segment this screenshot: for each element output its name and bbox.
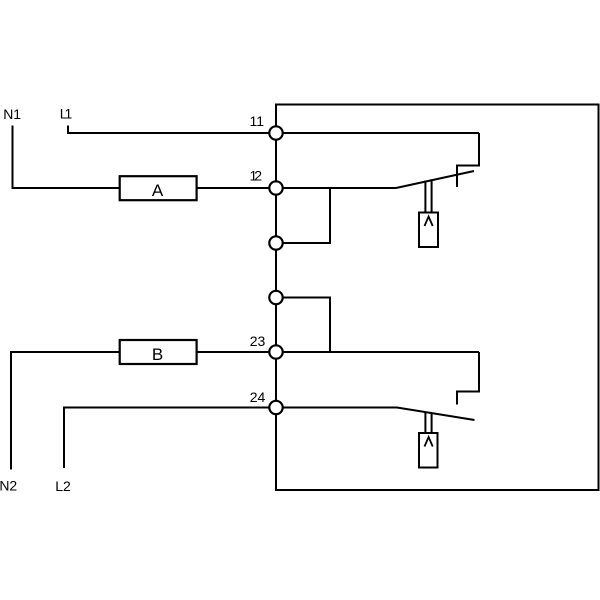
- actuator link of switch 23-24: [425, 412, 431, 433]
- actuator box of switch 11-12: [419, 213, 438, 248]
- wire L1 to terminal 11: [68, 126, 276, 134]
- terminal 23: [269, 345, 282, 358]
- wire terminal 11 to fixed contact: [276, 132, 479, 134]
- svg-text:L2: L2: [55, 478, 71, 494]
- svg-text:B: B: [152, 345, 163, 364]
- actuator box of switch 23-24: [419, 433, 438, 468]
- spare terminal lower: [269, 291, 282, 304]
- svg-text:24: 24: [250, 389, 266, 405]
- wire coil A to terminal 12: [198, 187, 277, 189]
- svg-text:A: A: [152, 181, 164, 200]
- svg-text:N1: N1: [3, 106, 21, 122]
- wire L2 to terminal 24: [64, 408, 276, 469]
- coil B box: [120, 340, 197, 364]
- coil A box: [120, 176, 197, 200]
- fixed contact of switch 11-12: [457, 133, 479, 187]
- fixed contact of switch 23-24: [457, 352, 479, 405]
- svg-text:11: 11: [250, 113, 265, 129]
- svg-text:N2: N2: [0, 478, 17, 494]
- jumper terminal 12 to spare terminal: [276, 188, 330, 243]
- spare terminal upper: [269, 236, 282, 249]
- terminal 24: [269, 401, 282, 414]
- wire coil B to terminal 23: [198, 351, 277, 353]
- terminal 11: [269, 126, 282, 139]
- wire terminal 12 to blade: [276, 187, 396, 189]
- wire N1 to coil A: [13, 126, 120, 189]
- wire terminal 24 and open blade of switch 23-24: [276, 408, 475, 421]
- movable blade of switch 11-12 (closed): [396, 171, 474, 188]
- relay body outline K1: [276, 105, 599, 491]
- svg-text:23: 23: [250, 333, 266, 349]
- jumper spare terminal to line 23: [276, 298, 330, 353]
- terminal 12: [269, 181, 282, 194]
- wire terminal 23 to fixed contact: [276, 351, 479, 353]
- actuator link of switch 11-12: [425, 179, 431, 212]
- caret symbol in bottom actuator: [425, 437, 433, 447]
- caret symbol in top actuator: [425, 217, 433, 227]
- wire N2 to coil B: [11, 352, 119, 470]
